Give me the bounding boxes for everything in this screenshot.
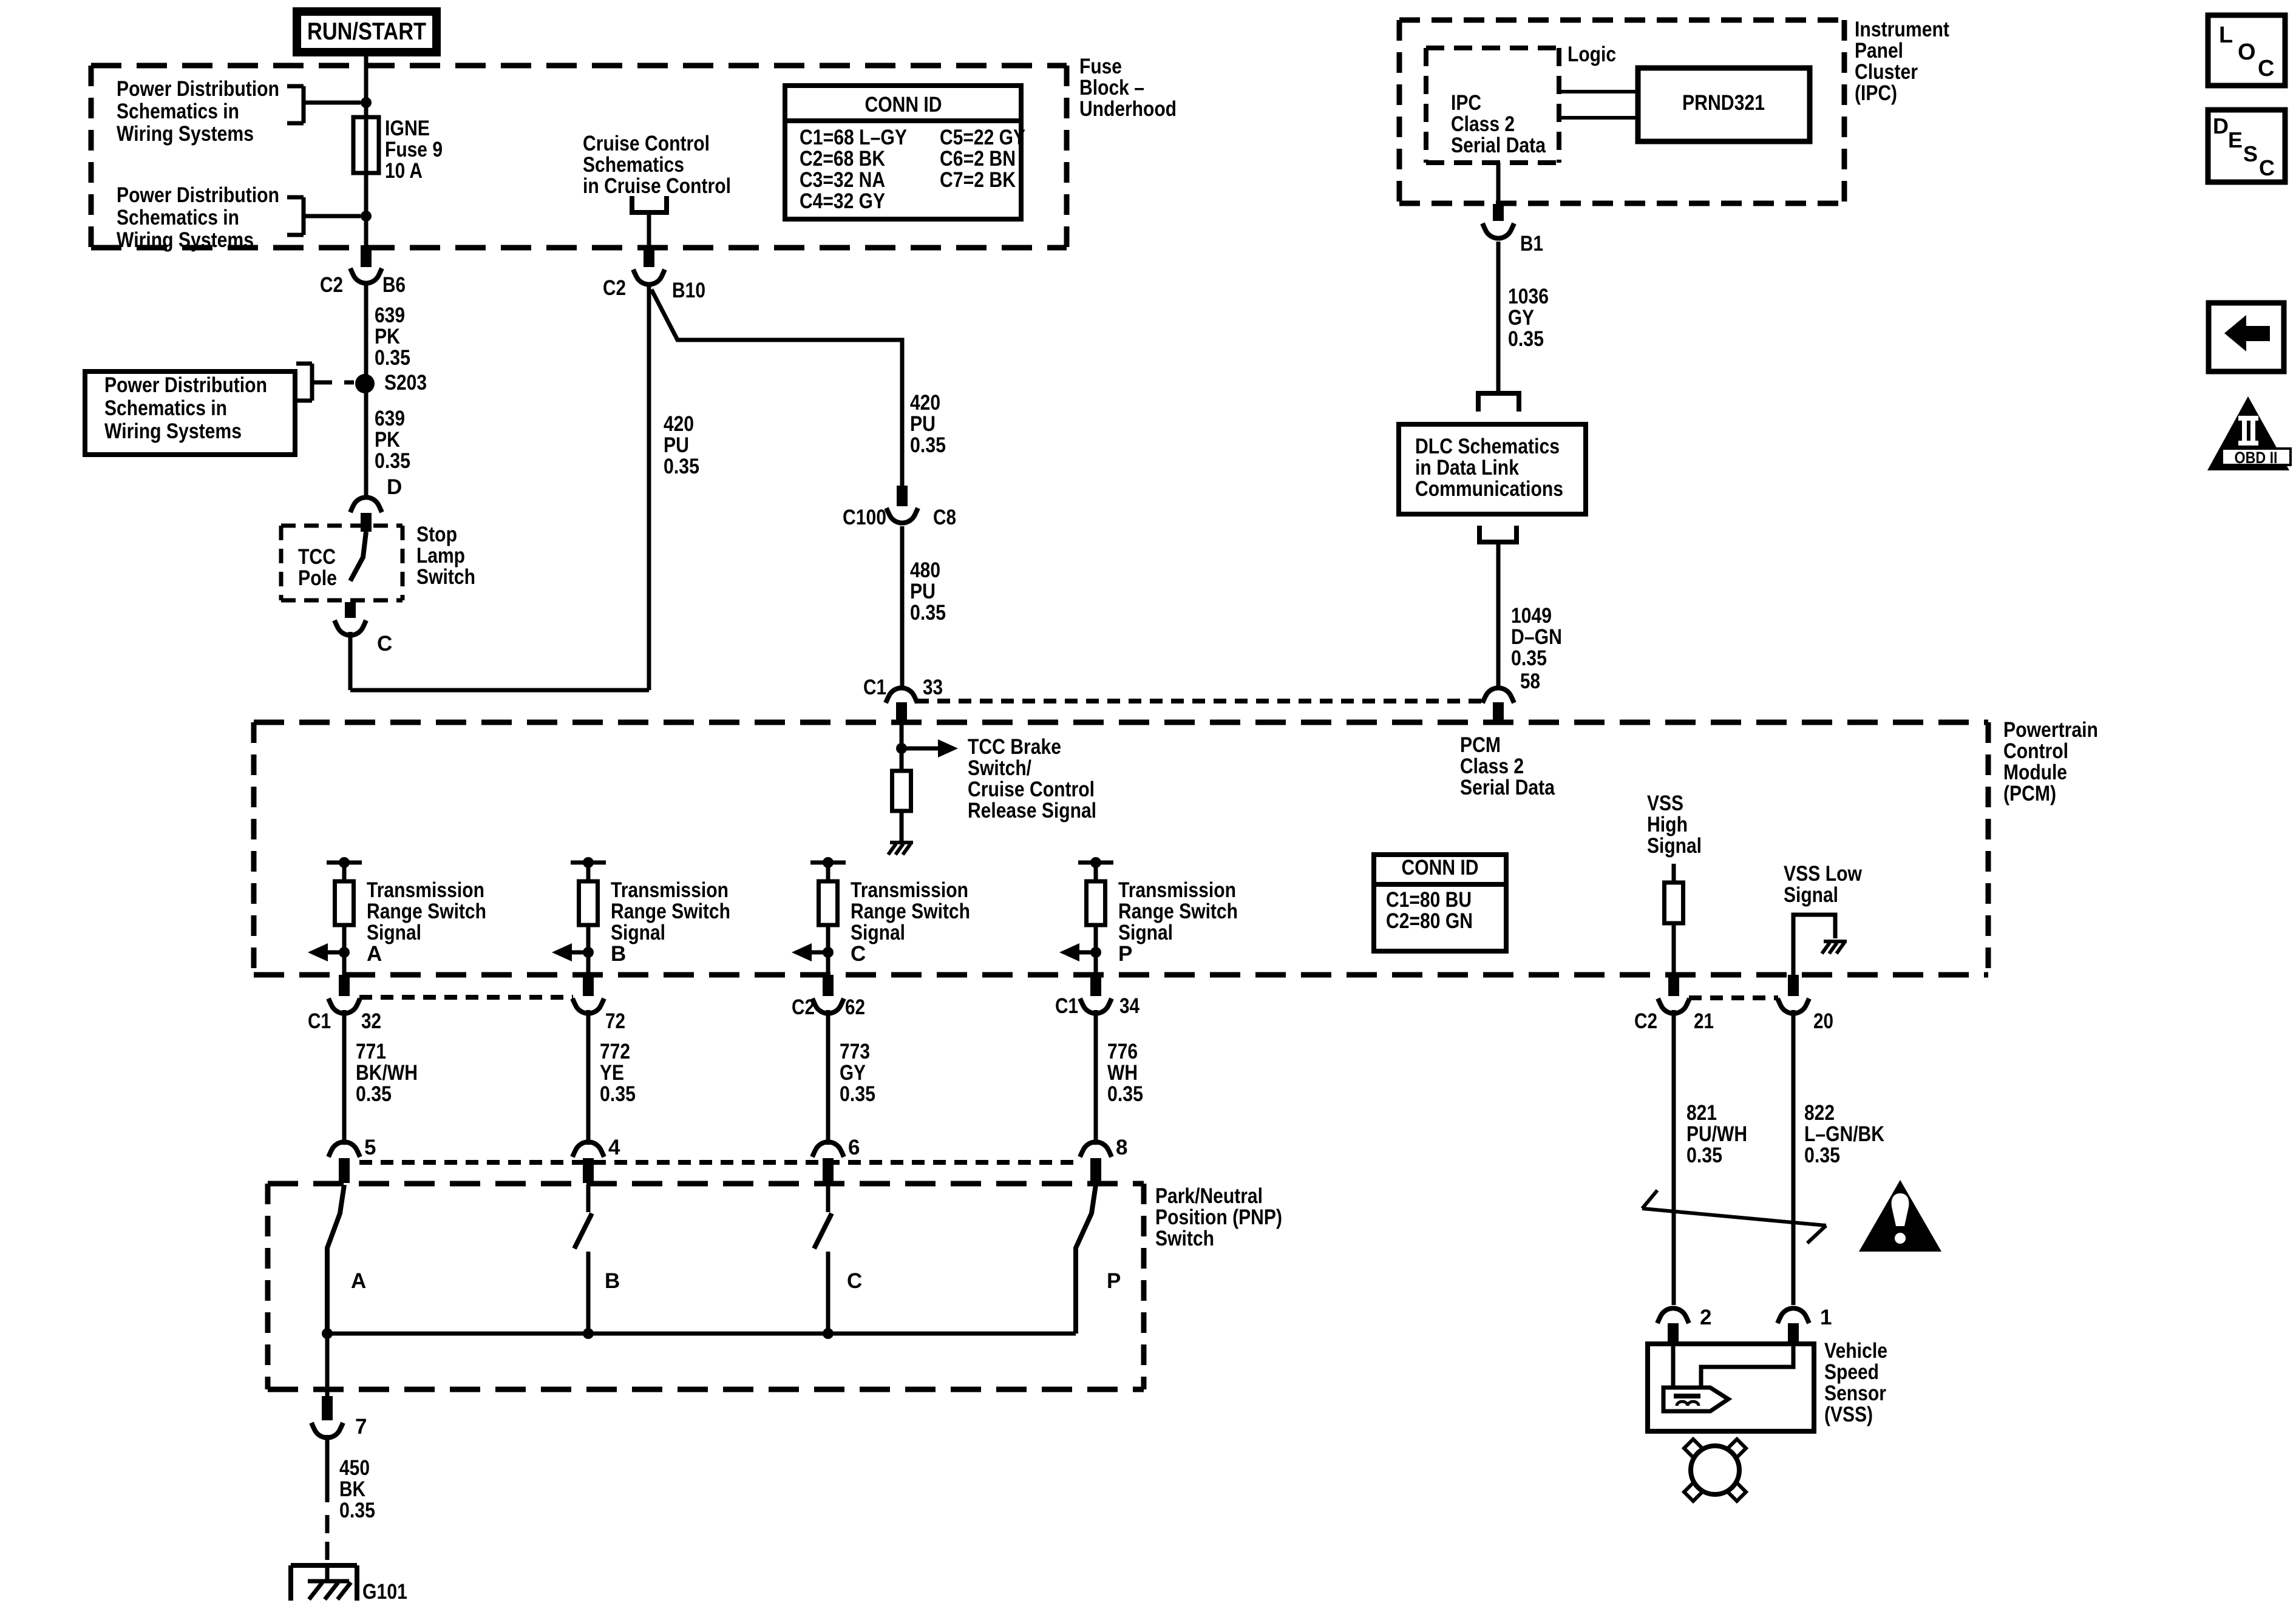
svg-text:Speed: Speed (1824, 1360, 1879, 1384)
svg-text:776: 776 (1107, 1040, 1138, 1063)
connector 8 PNP switch (1080, 1136, 1127, 1183)
park neutral position switch dashed box (268, 1184, 1144, 1389)
svg-text:Wiring Systems: Wiring Systems (117, 228, 254, 252)
label circuit 772 YE 0.35 (600, 1040, 636, 1106)
svg-text:C1: C1 (1055, 994, 1078, 1018)
svg-text:PK: PK (375, 325, 400, 348)
connector C (335, 620, 392, 656)
svg-text:PU: PU (664, 433, 689, 457)
svg-text:Underhood: Underhood (1079, 97, 1177, 121)
bracket S203 reference (296, 364, 354, 401)
svg-text:in Data Link: in Data Link (1415, 456, 1519, 480)
label Transmission Range Switch Signal C (851, 878, 970, 966)
svg-text:C: C (851, 942, 866, 966)
svg-text:B6: B6 (382, 273, 406, 297)
junction dot TCC signal (896, 743, 907, 754)
svg-text:B: B (611, 942, 626, 966)
svg-text:Block –: Block – (1079, 76, 1144, 100)
svg-text:S203: S203 (384, 371, 427, 395)
svg-text:Module: Module (2003, 761, 2067, 784)
off-page bracket below DLC (1477, 526, 1519, 542)
logic bus lines (1559, 92, 1638, 118)
svg-text:Class 2: Class 2 (1460, 754, 1524, 778)
svg-text:C2: C2 (320, 273, 343, 297)
svg-text:Fuse 9: Fuse 9 (385, 138, 443, 161)
svg-text:Wiring Systems: Wiring Systems (104, 419, 242, 443)
svg-text:PU: PU (910, 580, 936, 603)
svg-text:C6=2 BN: C6=2 BN (940, 147, 1016, 171)
label contact A (351, 1269, 366, 1293)
svg-text:TCC: TCC (298, 545, 336, 569)
svg-text:C: C (847, 1269, 862, 1293)
svg-text:0.35: 0.35 (1508, 327, 1544, 351)
PNP switch blade P (1076, 1185, 1096, 1334)
label PCM Class 2 Serial Data (1460, 733, 1555, 799)
wire resistor to ground (900, 811, 904, 841)
svg-text:62: 62 (845, 995, 865, 1019)
VSS low branch wire to internal ground (1793, 915, 1835, 975)
svg-text:A: A (367, 942, 382, 966)
svg-text:IPC: IPC (1451, 91, 1481, 115)
connector B1 (1483, 204, 1543, 256)
IPC class 2 serial data inner dashed box (1426, 48, 1559, 163)
svg-text:CONN ID: CONN ID (865, 93, 942, 117)
svg-text:Schematics in: Schematics in (117, 206, 239, 229)
label circuit 1036 GY 0.35 (1508, 285, 1549, 351)
svg-text:Park/Neutral: Park/Neutral (1155, 1184, 1263, 1208)
svg-text:OBD II: OBD II (2235, 449, 2278, 467)
resistor TCC pull-up (892, 771, 911, 811)
svg-text:Power Distribution: Power Distribution (117, 77, 279, 101)
svg-text:8: 8 (1116, 1136, 1127, 1159)
svg-text:C3=32 NA: C3=32 NA (800, 168, 885, 192)
svg-text:C2: C2 (1634, 1009, 1657, 1033)
junction dot A common (322, 1328, 333, 1339)
VSS pickup coil symbol (1663, 1388, 1728, 1411)
ground internal PCM TCC (888, 842, 913, 855)
svg-text:C1=80 BU: C1=80 BU (1386, 888, 1472, 912)
junction dot B common (583, 1328, 594, 1339)
label Transmission Range Switch Signal B (611, 878, 730, 966)
svg-text:(IPC): (IPC) (1855, 81, 1897, 105)
label circuit 821 PU/WH 0.35 (1686, 1101, 1747, 1167)
svg-text:D–GN: D–GN (1511, 625, 1562, 649)
svg-text:PU/WH: PU/WH (1686, 1122, 1747, 1146)
svg-text:C1: C1 (863, 676, 886, 699)
class 2 serial data dotted wire 33 to 58 (916, 699, 1484, 703)
label circuit 776 WH 0.35 (1107, 1040, 1143, 1106)
svg-text:PK: PK (375, 428, 400, 452)
connector C1 33 (863, 676, 943, 722)
fuse block - underhood dashed box (91, 66, 1067, 248)
label circuit 450 BK 0.35 (339, 1456, 375, 1522)
svg-text:639: 639 (375, 407, 405, 430)
svg-text:Panel: Panel (1855, 39, 1903, 63)
svg-text:C: C (377, 632, 392, 656)
svg-text:Cruise Control: Cruise Control (583, 132, 710, 155)
svg-text:C5=22 GY: C5=22 GY (940, 126, 1025, 149)
CONN ID table PCM (1374, 855, 1506, 951)
wire circuit 822 L-GN/BK (1792, 1010, 1796, 1305)
svg-text:Communications: Communications (1415, 477, 1563, 501)
DLC schematics reference box (1399, 424, 1586, 514)
wire B10 branch diagonal to C100 (651, 290, 902, 486)
label VSS Low Signal (1784, 862, 1863, 907)
svg-text:2: 2 (1700, 1306, 1711, 1329)
svg-text:Cruise Control: Cruise Control (968, 778, 1095, 801)
svg-text:Serial Data: Serial Data (1460, 776, 1555, 799)
svg-text:C1=68 L–GY: C1=68 L–GY (800, 126, 907, 149)
svg-text:Control: Control (2003, 739, 2068, 763)
connector C2 21 (1634, 975, 1714, 1033)
svg-text:480: 480 (910, 558, 940, 582)
svg-text:Range Switch: Range Switch (851, 900, 970, 923)
wire circuit 773 GY (826, 1010, 830, 1145)
svg-text:450: 450 (339, 1456, 370, 1480)
connector C1 32 PCM (308, 975, 381, 1033)
svg-text:Transmission: Transmission (611, 878, 729, 902)
svg-text:0.35: 0.35 (1686, 1144, 1722, 1167)
label circuit 420 PU 0.35 right (910, 391, 946, 457)
label contact B (605, 1269, 620, 1293)
svg-text:21: 21 (1694, 1009, 1714, 1033)
bracket lower power distribution (287, 197, 361, 235)
LOC icon box (2208, 15, 2285, 86)
twisted pair marker (1642, 1190, 1826, 1243)
svg-text:GY: GY (840, 1061, 866, 1085)
svg-text:BK/WH: BK/WH (356, 1061, 418, 1085)
label TCC Pole (298, 545, 337, 590)
off-page bracket cruise control (630, 196, 669, 212)
svg-text:P: P (1118, 942, 1132, 966)
dotted connector line 32 to 72 (359, 995, 573, 1000)
label circuit 420 PU 0.35 left (664, 412, 699, 478)
svg-text:Serial Data: Serial Data (1451, 134, 1546, 157)
svg-text:C100: C100 (843, 506, 886, 529)
arrow TCC brake switch signal (902, 739, 958, 758)
ground internal PCM VSS low (1822, 941, 1847, 954)
svg-text:Signal: Signal (851, 921, 905, 944)
connector D (350, 475, 402, 532)
svg-text:C2=68 BK: C2=68 BK (800, 147, 885, 171)
svg-text:72: 72 (605, 1009, 625, 1033)
svg-text:Release Signal: Release Signal (968, 799, 1096, 822)
svg-text:Sensor: Sensor (1824, 1381, 1886, 1405)
svg-text:RUN/START: RUN/START (307, 18, 426, 45)
junction dot lower feed (361, 211, 372, 222)
power distribution reference text upper (117, 77, 279, 146)
wire stop lamp switch to cruise branch (350, 286, 649, 690)
svg-text:C1: C1 (308, 1009, 331, 1033)
power feed box RUN/START (297, 12, 436, 52)
svg-text:0.35: 0.35 (664, 455, 699, 478)
VSS internal wiring (1673, 1346, 1793, 1389)
svg-text:B: B (605, 1269, 620, 1293)
svg-text:32: 32 (361, 1009, 381, 1033)
svg-text:Fuse: Fuse (1079, 55, 1122, 78)
svg-text:PCM: PCM (1460, 733, 1501, 757)
svg-text:E: E (2228, 127, 2243, 152)
svg-text:D: D (387, 475, 402, 499)
connector 5 PNP switch (328, 1136, 376, 1183)
svg-text:G101: G101 (362, 1580, 407, 1604)
svg-text:VSS: VSS (1647, 792, 1683, 815)
svg-text:A: A (351, 1269, 366, 1293)
connector 6 PNP switch (812, 1136, 860, 1183)
DESC icon box (2208, 110, 2285, 182)
svg-text:Instrument: Instrument (1855, 18, 1949, 41)
label circuit 773 GY 0.35 (840, 1040, 875, 1106)
label circuit 771 BK/WH 0.35 (356, 1040, 418, 1106)
wire circuit 776 WH (1094, 1010, 1098, 1145)
label Stop Lamp Switch (416, 523, 475, 589)
label circuit 1049 D-GN 0.35 (1511, 604, 1562, 670)
dotted connector line PNP 5 to 8 (359, 1160, 1081, 1165)
svg-text:0.35: 0.35 (910, 433, 946, 457)
OBD II triangle icon (2207, 396, 2291, 470)
PNP switch blade C (814, 1185, 832, 1334)
svg-text:Signal: Signal (1118, 921, 1173, 944)
svg-text:Cluster: Cluster (1855, 60, 1918, 84)
svg-text:IGNE: IGNE (385, 117, 430, 140)
svg-text:7: 7 (355, 1415, 367, 1439)
wire cruise control to connector B10 (647, 215, 651, 246)
svg-text:33: 33 (923, 676, 943, 699)
svg-text:B1: B1 (1520, 232, 1543, 256)
label Instrument Panel Cluster IPC (1855, 18, 1949, 105)
svg-text:Range Switch: Range Switch (367, 900, 486, 923)
svg-text:1049: 1049 (1511, 604, 1552, 628)
svg-text:Logic: Logic (1567, 42, 1616, 66)
svg-text:O: O (2238, 39, 2256, 65)
svg-text:TCC Brake: TCC Brake (968, 735, 1061, 759)
CONN ID table fuse block (785, 86, 1025, 219)
connector 72 PCM (572, 975, 625, 1033)
wire common to connector 7 (325, 1334, 330, 1397)
svg-text:C2=80 GN: C2=80 GN (1386, 909, 1473, 933)
svg-text:5: 5 (364, 1136, 376, 1159)
wire circuit 821 PU/WH (1672, 1010, 1676, 1305)
svg-text:L–GN/BK: L–GN/BK (1804, 1122, 1884, 1146)
wire 639 PK from B6 to D (364, 285, 369, 497)
PNP switch blade A (327, 1185, 344, 1334)
label VSS High Signal (1647, 792, 1702, 858)
label Transmission Range Switch Signal A (367, 878, 486, 966)
wire 33 into PCM (900, 722, 904, 771)
TCC pole dashed box (281, 526, 402, 600)
svg-text:Signal: Signal (1784, 883, 1838, 907)
splice S203 (355, 371, 427, 395)
svg-text:Switch: Switch (416, 565, 475, 589)
connector 58 (1483, 688, 1514, 722)
svg-text:773: 773 (840, 1040, 870, 1063)
svg-text:in Cruise Control: in Cruise Control (583, 174, 731, 198)
label circuit 639 PK 0.35 lower (375, 407, 410, 473)
svg-text:P: P (1107, 1269, 1121, 1293)
svg-text:C4=32 GY: C4=32 GY (800, 189, 885, 213)
label contact P (1107, 1269, 1121, 1293)
label Fuse Block - Underhood (1079, 55, 1177, 121)
svg-text:0.35: 0.35 (339, 1499, 375, 1522)
label circuit 639 PK 0.35 upper (375, 303, 410, 370)
connector 20 (1778, 975, 1833, 1033)
svg-text:Range Switch: Range Switch (611, 900, 730, 923)
wire circuit 772 YE (586, 1010, 591, 1145)
svg-text:PU: PU (910, 412, 936, 436)
instrument panel cluster dashed box (1399, 20, 1844, 203)
svg-text:821: 821 (1686, 1101, 1717, 1125)
connector 4 PNP switch (572, 1136, 620, 1183)
svg-text:1036: 1036 (1508, 285, 1549, 308)
wire DLC to connector 58 (1496, 543, 1501, 687)
svg-text:C: C (2259, 155, 2275, 180)
svg-text:DLC Schematics: DLC Schematics (1415, 435, 1560, 458)
svg-text:PRND321: PRND321 (1682, 91, 1765, 115)
svg-text:0.35: 0.35 (1804, 1144, 1840, 1167)
label Park Neutral Position PNP Switch (1155, 1184, 1282, 1250)
svg-text:0.35: 0.35 (375, 449, 410, 473)
svg-text:420: 420 (910, 391, 940, 415)
dotted connector line 21 to 20 (1689, 995, 1778, 1000)
svg-text:0.35: 0.35 (1511, 646, 1547, 670)
svg-text:10 A: 10 A (385, 159, 423, 183)
transmission range switch signal A branch (308, 857, 362, 975)
svg-text:Lamp: Lamp (416, 544, 465, 568)
wire circuit 771 BK/WH (342, 1010, 347, 1145)
label Vehicle Speed Sensor VSS (1824, 1339, 1887, 1426)
svg-text:4: 4 (608, 1136, 620, 1159)
power distribution reference box at S203 (85, 371, 295, 455)
ground G101 (291, 1565, 357, 1601)
stop lamp switch lower contact (345, 602, 356, 618)
svg-text:(VSS): (VSS) (1824, 1403, 1873, 1426)
svg-text:C: C (2258, 56, 2274, 81)
svg-text:Position (PNP): Position (PNP) (1155, 1205, 1282, 1229)
powertrain control module dashed box (254, 722, 1988, 975)
svg-text:Vehicle: Vehicle (1824, 1339, 1887, 1363)
svg-text:L: L (2219, 22, 2233, 48)
fuse IGNE Fuse 9 10 A (353, 117, 379, 173)
svg-text:C7=2 BK: C7=2 BK (940, 168, 1016, 192)
svg-text:BK: BK (339, 1477, 365, 1501)
svg-text:0.35: 0.35 (600, 1082, 636, 1106)
svg-text:0.35: 0.35 (375, 346, 410, 370)
svg-text:0.35: 0.35 (910, 601, 946, 625)
svg-text:CONN ID: CONN ID (1402, 856, 1479, 880)
wire IPC to connector B1 (1496, 163, 1501, 205)
svg-text:Switch/: Switch/ (968, 756, 1031, 780)
label IPC Class 2 Serial Data (1451, 91, 1546, 157)
svg-text:Wiring Systems: Wiring Systems (117, 122, 254, 146)
connector C2 62 PCM (792, 975, 865, 1019)
back arrow icon box (2209, 303, 2284, 371)
label circuit 480 PU 0.35 (910, 558, 946, 625)
connector 1 (1778, 1306, 1832, 1345)
wire B1 to DLC bracket (1496, 242, 1501, 392)
svg-text:VSS Low: VSS Low (1784, 862, 1863, 886)
label 58 (1520, 670, 1540, 693)
wire 480 PU to PCM connector 33 (900, 526, 905, 687)
label Logic (1567, 42, 1616, 66)
connector 7 (311, 1396, 367, 1439)
PRND321 display box (1638, 68, 1810, 141)
label contact C (847, 1269, 862, 1293)
svg-text:WH: WH (1107, 1061, 1138, 1085)
svg-text:Signal: Signal (611, 921, 665, 944)
svg-text:C2: C2 (603, 276, 626, 300)
svg-text:639: 639 (375, 303, 405, 327)
connector C2 B10 (603, 245, 705, 302)
svg-text:772: 772 (600, 1040, 630, 1063)
PNP switch blade B (574, 1185, 592, 1334)
svg-text:Schematics in: Schematics in (117, 100, 239, 123)
svg-text:B10: B10 (672, 279, 705, 302)
svg-text:Power Distribution: Power Distribution (117, 183, 279, 207)
wire RUN/START to fuse and S203 (circuit 639) (364, 52, 369, 249)
vehicle speed sensor box (1648, 1344, 1814, 1431)
label circuit 822 L-GN/BK 0.35 (1804, 1101, 1884, 1167)
svg-text:Signal: Signal (1647, 834, 1702, 858)
svg-text:Range Switch: Range Switch (1118, 900, 1238, 923)
svg-text:Signal: Signal (367, 921, 421, 944)
svg-text:0.35: 0.35 (356, 1082, 392, 1106)
wire 450 BK broken to G101 (325, 1435, 330, 1581)
connector C1 34 PCM (1055, 975, 1140, 1018)
svg-text:1: 1 (1820, 1306, 1832, 1329)
svg-text:Stop: Stop (416, 523, 457, 546)
caution warning triangle (1859, 1180, 1941, 1252)
transmission range switch signal C branch (792, 857, 846, 975)
reluctor gear symbol (1684, 1439, 1746, 1501)
stop lamp switch blade (350, 532, 366, 581)
connector 2 (1657, 1306, 1711, 1345)
svg-text:C8: C8 (933, 506, 956, 529)
svg-text:Schematics in: Schematics in (104, 396, 227, 420)
transmission range switch signal P branch (1059, 857, 1113, 975)
transmission range switch signal B branch (552, 857, 606, 975)
svg-text:Transmission: Transmission (851, 878, 968, 902)
svg-text:S: S (2243, 141, 2258, 166)
svg-text:Powertrain: Powertrain (2003, 718, 2098, 742)
label G101 (362, 1580, 407, 1604)
svg-text:Power Distribution: Power Distribution (104, 373, 267, 397)
svg-text:58: 58 (1520, 670, 1540, 693)
label IGNE Fuse 9 10 A (385, 117, 443, 183)
bracket upper power distribution (287, 86, 361, 123)
svg-text:822: 822 (1804, 1101, 1835, 1125)
svg-text:Pole: Pole (298, 566, 337, 590)
svg-text:0.35: 0.35 (840, 1082, 875, 1106)
svg-text:(PCM): (PCM) (2003, 782, 2056, 805)
svg-text:20: 20 (1813, 1009, 1833, 1033)
svg-text:Transmission: Transmission (367, 878, 484, 902)
off-page bracket to DLC above (1476, 393, 1521, 412)
svg-text:C2: C2 (792, 995, 815, 1019)
svg-text:High: High (1647, 813, 1688, 836)
label Cruise Control Schematics (583, 132, 731, 198)
svg-text:GY: GY (1508, 306, 1534, 330)
junction dot upper feed (361, 97, 372, 108)
svg-text:Class 2: Class 2 (1451, 112, 1515, 136)
connector C2 B6 (320, 245, 406, 297)
svg-text:6: 6 (848, 1136, 860, 1159)
PNP common node wire (327, 1332, 1076, 1336)
svg-text:D: D (2213, 114, 2229, 138)
svg-text:Transmission: Transmission (1118, 878, 1236, 902)
connector C100 C8 (843, 486, 956, 529)
power distribution reference text lower (117, 183, 279, 252)
VSS high branch wire and resistor (1665, 864, 1683, 975)
